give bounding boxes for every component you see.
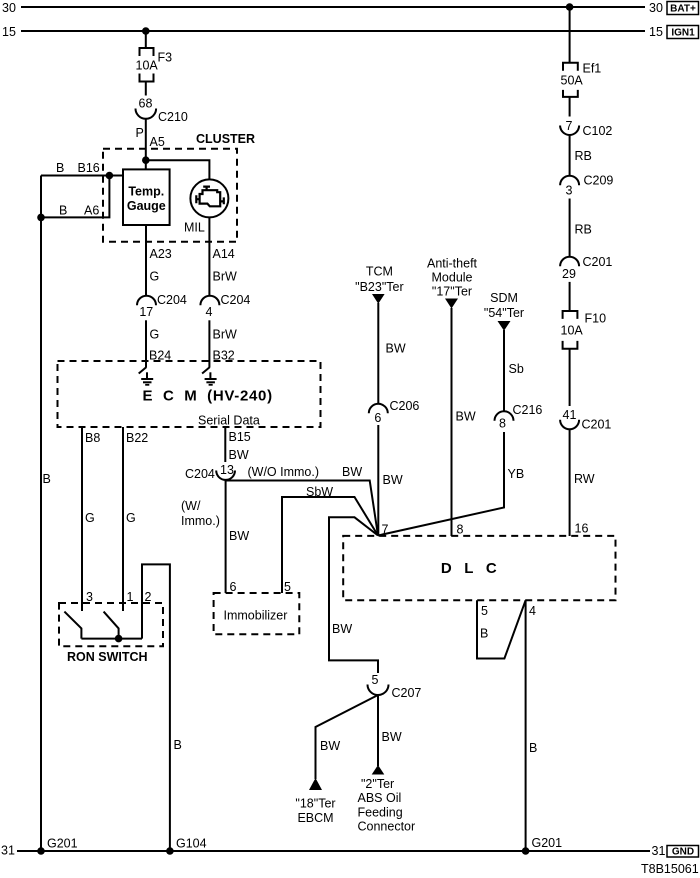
- switch blade pin 1: [104, 612, 119, 639]
- svg-text:C204: C204: [221, 293, 251, 307]
- svg-text:MIL: MIL: [184, 221, 205, 235]
- rail 15 (IGN1): [2, 25, 663, 39]
- svg-text:C216: C216: [513, 403, 543, 417]
- BAT+ tag: [667, 2, 699, 15]
- wire C207 to ABS oil feeding connector: [377, 695, 379, 766]
- svg-text:B15: B15: [229, 430, 251, 444]
- EBCM terminal label: [295, 797, 335, 826]
- connector C201 pin 29: [560, 255, 612, 281]
- wire B16: temp gauge to left vertical: [41, 175, 123, 177]
- wire C204-4 to ECM B32: [208, 320, 210, 361]
- svg-text:B16: B16: [78, 161, 100, 175]
- wire DLC pin 4 to G201: [525, 600, 527, 851]
- svg-text:31: 31: [1, 844, 15, 858]
- wire DLC pin 5 loop to pin 4: [477, 600, 526, 658]
- terminal arrow to TCM: [372, 294, 385, 304]
- svg-text:C209: C209: [584, 174, 614, 188]
- svg-text:CLUSTER: CLUSTER: [196, 132, 255, 146]
- wire SDM to C216: [503, 330, 505, 411]
- node B16 branch: [106, 172, 114, 180]
- wire temp gauge to C204 pin 17: [145, 225, 147, 296]
- RON SWITCH box (dashed): [59, 603, 163, 664]
- svg-text:Anti-theft: Anti-theft: [427, 257, 478, 271]
- svg-text:10A: 10A: [136, 59, 159, 73]
- connector C204 pin 4: [200, 293, 250, 319]
- svg-text:7: 7: [382, 523, 389, 537]
- switch common rail: [81, 638, 142, 640]
- ground G104: [166, 847, 174, 855]
- svg-text:10A: 10A: [561, 324, 584, 338]
- svg-text:TCM: TCM: [366, 265, 393, 279]
- svg-text:BW: BW: [456, 410, 476, 424]
- svg-text:16: 16: [575, 522, 589, 536]
- svg-text:"54"Ter: "54"Ter: [484, 306, 524, 320]
- svg-text:B: B: [56, 161, 64, 175]
- svg-text:(W/: (W/: [181, 499, 201, 513]
- svg-text:B8: B8: [85, 431, 100, 445]
- svg-text:A14: A14: [213, 247, 235, 261]
- svg-text:31: 31: [652, 844, 666, 858]
- svg-text:"17"Ter: "17"Ter: [432, 285, 472, 299]
- wire YB C216 to DLC pin 7: [378, 432, 504, 536]
- SDM terminal label: [484, 291, 524, 320]
- DLC box (dashed): [343, 536, 615, 600]
- connector C209 pin 3: [560, 174, 613, 198]
- wire rail 30 to Ef1: [569, 7, 571, 63]
- svg-text:B22: B22: [126, 431, 148, 445]
- svg-text:Sb: Sb: [509, 362, 524, 376]
- svg-text:SbW: SbW: [306, 485, 333, 499]
- svg-text:G104: G104: [176, 837, 207, 851]
- node: tap on rail 15 for F3: [142, 27, 150, 35]
- fuse F10 10A: [561, 311, 607, 349]
- svg-text:BW: BW: [382, 730, 402, 744]
- internal ground at ECM B24: [139, 361, 154, 385]
- wire (W/O Immo.) BW to DLC pin 7: [226, 480, 378, 536]
- wire A6 loop: [41, 176, 109, 218]
- svg-text:Immobilizer: Immobilizer: [224, 609, 288, 623]
- svg-text:IGN1: IGN1: [671, 28, 695, 39]
- connector C206 pin 6: [369, 399, 420, 425]
- svg-text:5: 5: [481, 604, 488, 618]
- wire MIL to C204 pin 4: [208, 217, 210, 295]
- svg-text:8: 8: [457, 523, 464, 537]
- wire C210 to cluster A5: [145, 119, 147, 170]
- svg-text:C201: C201: [583, 255, 613, 269]
- connector C210 pin 68: [136, 97, 188, 125]
- svg-text:C210: C210: [158, 110, 188, 124]
- svg-text:B: B: [529, 741, 537, 755]
- wire ECM B8 to RON SWITCH pin 3: [81, 427, 83, 611]
- connector C216 pin 8: [495, 403, 543, 431]
- svg-text:6: 6: [374, 411, 381, 425]
- connector C102 pin 7: [560, 119, 612, 138]
- svg-text:C207: C207: [392, 686, 422, 700]
- svg-text:29: 29: [562, 267, 576, 281]
- svg-text:A23: A23: [150, 247, 172, 261]
- svg-text:BW: BW: [320, 739, 340, 753]
- svg-text:ABS Oil: ABS Oil: [358, 791, 402, 805]
- svg-text:5: 5: [372, 673, 379, 687]
- svg-text:B: B: [174, 738, 182, 752]
- svg-text:C201: C201: [582, 418, 612, 432]
- svg-text:"B23"Ter: "B23"Ter: [355, 280, 403, 294]
- svg-text:P: P: [136, 126, 144, 140]
- anti-theft module terminal label: [427, 257, 478, 299]
- GND tag: [667, 846, 699, 858]
- wire C206 to DLC pin 7: [377, 425, 379, 536]
- immobilizer box (dashed): [214, 593, 300, 634]
- wire B: left vertical to G201: [40, 176, 42, 852]
- svg-text:C204: C204: [157, 293, 187, 307]
- svg-text:Gauge: Gauge: [127, 199, 166, 213]
- wire rail15 to F3: [145, 31, 147, 48]
- svg-text:GND: GND: [672, 847, 694, 858]
- wire C201 to F10: [569, 282, 571, 311]
- node: tap on rail 30 for Ef1: [566, 3, 574, 11]
- svg-text:2: 2: [145, 590, 152, 604]
- svg-text:"18"Ter: "18"Ter: [295, 797, 335, 811]
- ground G201 left: [37, 847, 45, 855]
- fusible link Ef1 50A: [561, 62, 602, 97]
- svg-text:G: G: [126, 511, 136, 525]
- svg-text:30: 30: [2, 1, 16, 15]
- svg-text:SDM: SDM: [490, 291, 518, 305]
- svg-text:B: B: [59, 204, 67, 218]
- svg-text:Connector: Connector: [358, 820, 416, 834]
- svg-text:1: 1: [127, 590, 134, 604]
- svg-text:15: 15: [649, 25, 663, 39]
- svg-text:3: 3: [86, 590, 93, 604]
- svg-text:3: 3: [566, 184, 573, 198]
- ground G201 right: [522, 847, 530, 855]
- wire C207 to EBCM: [316, 695, 379, 779]
- rail 31 (GND): [1, 844, 665, 859]
- svg-text:EBCM: EBCM: [297, 811, 333, 825]
- svg-text:8: 8: [499, 417, 506, 431]
- node A5 junction inside cluster: [142, 156, 150, 164]
- svg-text:"2"Ter: "2"Ter: [361, 777, 394, 791]
- IGN1 tag: [667, 26, 699, 39]
- switch blade pin 3: [64, 612, 81, 639]
- connector C207 pin 5: [368, 673, 422, 700]
- svg-text:F10: F10: [585, 312, 607, 326]
- svg-text:G: G: [150, 270, 160, 284]
- svg-text:D L C: D L C: [441, 560, 497, 577]
- svg-text:Immo.): Immo.): [181, 514, 220, 528]
- wire RW C201-41 to DLC pin 16: [569, 429, 571, 536]
- svg-text:17: 17: [139, 305, 153, 319]
- wire RB C209 to C201: [569, 199, 571, 257]
- svg-text:41: 41: [563, 408, 577, 422]
- wire DLC pin 7 to C207: [329, 517, 378, 673]
- svg-text:BW: BW: [386, 342, 406, 356]
- ABS connector terminal label: [358, 777, 416, 834]
- svg-text:BW: BW: [383, 473, 403, 487]
- svg-text:50A: 50A: [561, 74, 584, 88]
- svg-text:13: 13: [220, 463, 234, 477]
- svg-text:BW: BW: [229, 529, 249, 543]
- terminal arrow to ABS connector: [372, 765, 385, 775]
- svg-text:Feeding: Feeding: [358, 806, 403, 820]
- node on switch rail: [115, 635, 123, 643]
- node A6 on left ground wire: [37, 214, 45, 222]
- wire C204-17 to ECM B24: [145, 320, 147, 361]
- svg-text:15: 15: [2, 25, 16, 39]
- cluster box (dashed): [103, 132, 255, 242]
- svg-text:BW: BW: [332, 622, 352, 636]
- terminal arrow to SDM: [498, 321, 511, 331]
- rail 30 (BAT+): [2, 1, 663, 15]
- svg-text:A5: A5: [150, 135, 165, 149]
- wire (W/ Immo.) to immobilizer pin 6: [225, 481, 227, 594]
- svg-text:4: 4: [206, 305, 213, 319]
- svg-text:G: G: [150, 328, 160, 342]
- svg-text:YB: YB: [508, 467, 525, 481]
- svg-text:BW: BW: [342, 465, 362, 479]
- svg-text:B: B: [43, 472, 51, 486]
- wire F3 to C210: [145, 82, 147, 96]
- svg-text:RW: RW: [574, 472, 595, 486]
- svg-text:F3: F3: [158, 51, 173, 65]
- svg-text:BAT+: BAT+: [670, 4, 696, 15]
- MIL lamp U-MIL (in cluster): [184, 179, 228, 234]
- svg-text:RON SWITCH: RON SWITCH: [67, 650, 148, 664]
- svg-text:Module: Module: [432, 271, 473, 285]
- wire ECM B15 to C204 pin 13: [224, 427, 226, 462]
- svg-text:6: 6: [230, 580, 237, 594]
- connector C204 pin 13: [185, 463, 235, 481]
- TCM terminal label: [355, 265, 403, 295]
- svg-text:RB: RB: [575, 223, 592, 237]
- svg-text:G201: G201: [532, 836, 563, 850]
- svg-text:(W/O Immo.): (W/O Immo.): [248, 465, 320, 479]
- svg-text:A6: A6: [84, 204, 99, 218]
- svg-text:7: 7: [566, 119, 573, 133]
- terminal arrow to anti-theft module: [445, 299, 458, 309]
- svg-text:BW: BW: [229, 448, 249, 462]
- svg-text:30: 30: [649, 1, 663, 15]
- temp gauge (in cluster): [123, 169, 170, 225]
- svg-text:BrW: BrW: [213, 270, 238, 284]
- svg-text:68: 68: [139, 97, 153, 111]
- wire RB C102 to C209: [569, 135, 571, 176]
- svg-text:Serial Data: Serial Data: [198, 414, 260, 428]
- wire A5 node to MIL branch: [146, 160, 210, 179]
- connector C204 pin 17: [137, 293, 187, 319]
- svg-text:G201: G201: [47, 837, 78, 851]
- internal ground at ECM B32: [202, 361, 217, 385]
- svg-text:C102: C102: [583, 124, 613, 138]
- ECM module box (dashed): [58, 361, 321, 428]
- wire Ef1 to C102: [569, 97, 571, 117]
- svg-text:C204: C204: [185, 467, 215, 481]
- svg-text:B: B: [480, 627, 488, 641]
- svg-text:E C M (HV-240): E C M (HV-240): [143, 387, 273, 404]
- svg-text:C206: C206: [390, 399, 420, 413]
- wire anti-theft to DLC pin 8: [451, 308, 453, 536]
- svg-text:RB: RB: [575, 149, 592, 163]
- wire RON SWITCH pin 2 to G104: [142, 564, 170, 851]
- svg-text:T8B15061: T8B15061: [641, 862, 699, 876]
- wire TCM to C206: [377, 303, 379, 404]
- terminal arrow to EBCM: [309, 778, 322, 790]
- wire F10 to C201-41: [569, 349, 571, 406]
- svg-text:Ef1: Ef1: [583, 62, 602, 76]
- wire ECM B22 to RON SWITCH pin 1: [122, 427, 124, 611]
- svg-text:Temp.: Temp.: [128, 185, 164, 199]
- svg-text:BrW: BrW: [213, 328, 238, 342]
- svg-text:5: 5: [284, 580, 291, 594]
- fuse F3 10A: [136, 48, 173, 82]
- svg-text:G: G: [85, 511, 95, 525]
- connector C201 pin 41: [560, 408, 611, 432]
- svg-text:4: 4: [529, 604, 536, 618]
- wire SbW immobilizer pin 5 to DLC pin 7: [282, 497, 378, 593]
